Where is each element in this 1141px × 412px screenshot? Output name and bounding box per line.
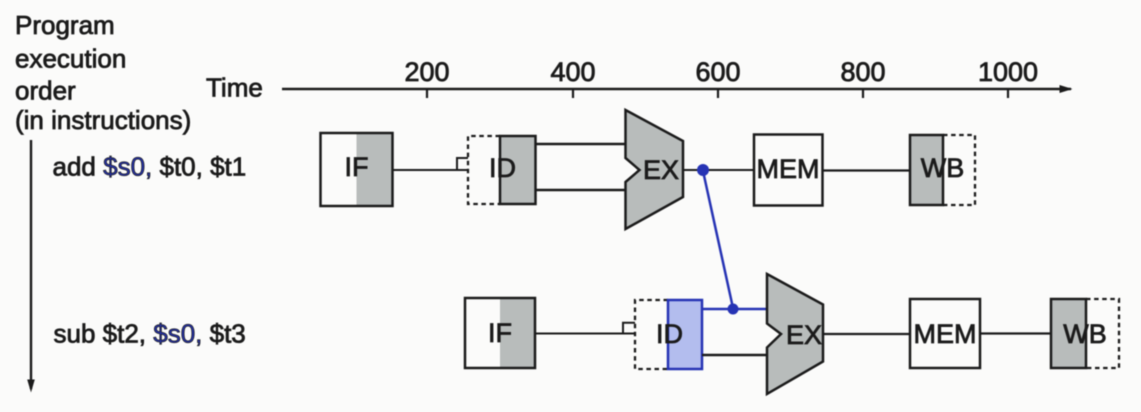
svg-text:Program: Program bbox=[15, 10, 115, 40]
svg-text:MEM: MEM bbox=[914, 319, 977, 349]
wire MEM-WB (add) bbox=[823, 169, 911, 171]
svg-text:Time: Time bbox=[206, 73, 263, 103]
svg-text:1000: 1000 bbox=[978, 57, 1038, 87]
wire ID-EX lower operand (add) bbox=[536, 189, 626, 191]
svg-text:WB: WB bbox=[1063, 319, 1107, 349]
svg-text:sub $t2, $s0, $t3: sub $t2, $s0, $t3 bbox=[54, 319, 246, 349]
wire EX-MEM (sub) bbox=[823, 333, 910, 335]
wire IF-ID (sub) with register-edge notch bbox=[535, 323, 635, 334]
svg-text:600: 600 bbox=[695, 57, 740, 87]
stage WB (sub) : shaded left half, dashed right half bbox=[1051, 299, 1119, 368]
stage MEM (add) bbox=[754, 135, 823, 206]
svg-text:WB: WB bbox=[921, 153, 965, 183]
stage WB (add) : shaded left half, dashed right half bbox=[910, 135, 975, 205]
svg-text:200: 200 bbox=[404, 57, 449, 87]
svg-text:add $s0, $t0, $t1: add $s0, $t0, $t1 bbox=[53, 152, 247, 182]
ALU stage EX (add) bbox=[626, 110, 684, 229]
svg-text:(in instructions): (in instructions) bbox=[15, 105, 191, 135]
wire ID-EX lower operand (sub) bbox=[702, 354, 767, 356]
stage MEM (sub) bbox=[910, 299, 980, 368]
svg-text:IF: IF bbox=[345, 152, 369, 182]
svg-text:EX: EX bbox=[643, 155, 679, 185]
tick 800 bbox=[840, 57, 885, 98]
wire ID-EX upper operand (add) bbox=[536, 143, 626, 145]
svg-text:order: order bbox=[15, 76, 76, 106]
tick 1000 bbox=[978, 57, 1038, 98]
ALU stage EX (sub) bbox=[767, 274, 823, 394]
tick 200 bbox=[404, 57, 449, 98]
svg-text:ID: ID bbox=[656, 319, 683, 349]
wire ID-EX upper operand (sub, forwarded, blue) bbox=[702, 308, 767, 310]
tick 400 bbox=[550, 57, 595, 98]
stage ID (add) : dashed left half, shaded right half bbox=[468, 136, 536, 204]
program order arrow (vertical, pointing down) bbox=[27, 140, 35, 393]
wire IF-ID (add) with register-edge notch bbox=[393, 158, 469, 170]
svg-text:IF: IF bbox=[488, 318, 512, 348]
svg-text:EX: EX bbox=[786, 320, 822, 350]
svg-text:ID: ID bbox=[489, 153, 516, 183]
time axis line with arrowhead bbox=[282, 85, 1073, 93]
label: program execution order caption bbox=[15, 10, 191, 135]
wire EX-MEM (add) bbox=[683, 169, 754, 171]
svg-text:execution: execution bbox=[15, 44, 126, 74]
svg-text:800: 800 bbox=[840, 57, 885, 87]
stage ID (sub) : dashed left half, blue highlighted right half bbox=[635, 300, 702, 369]
tick 600 bbox=[695, 57, 740, 98]
svg-text:400: 400 bbox=[550, 57, 595, 87]
wire MEM-WB (sub) bbox=[980, 332, 1051, 334]
forwarding path (blue diagonal wire) bbox=[703, 171, 733, 308]
svg-text:MEM: MEM bbox=[757, 154, 820, 184]
node: forwarding source (EX output of add) bbox=[697, 164, 709, 176]
stage IF (add) bbox=[321, 133, 393, 206]
node: forwarding destination (ID of sub) bbox=[728, 304, 739, 315]
stage IF (sub) bbox=[465, 298, 535, 368]
